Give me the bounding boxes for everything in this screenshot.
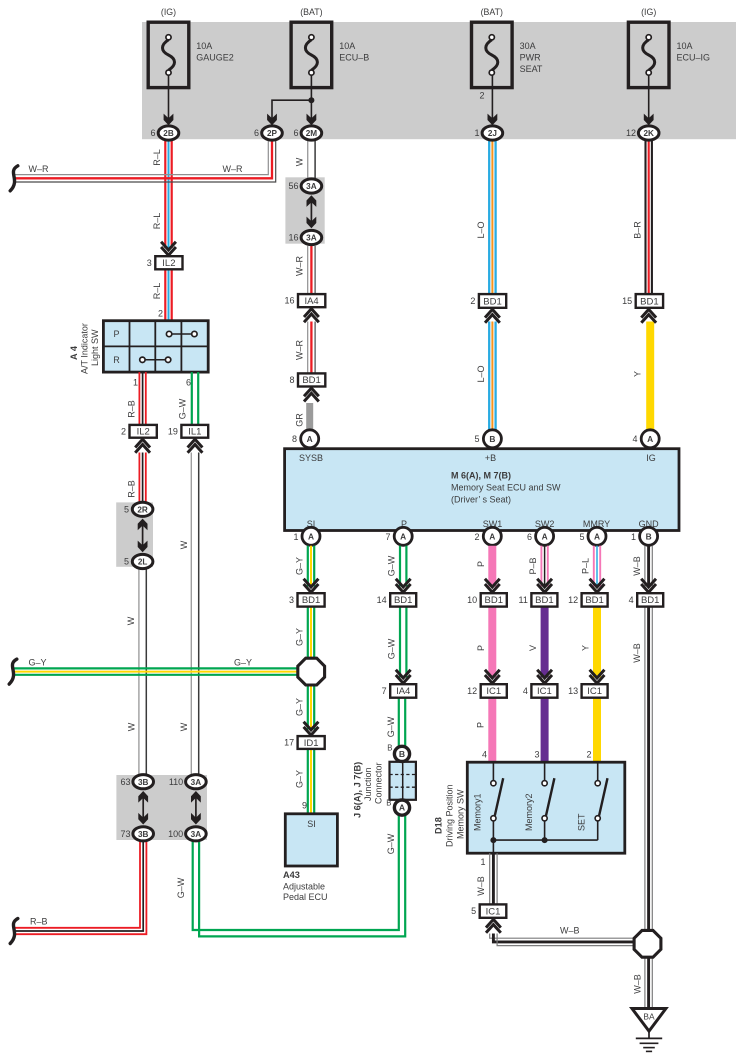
wire R-L 2B to IL2 bbox=[164, 140, 166, 248]
svg-text:GR: GR bbox=[295, 413, 305, 427]
svg-text:W: W bbox=[126, 616, 136, 625]
svg-text:SYSB: SYSB bbox=[299, 453, 323, 463]
svg-text:IC1: IC1 bbox=[486, 686, 501, 697]
svg-text:1: 1 bbox=[631, 532, 636, 542]
svg-text:R–L: R–L bbox=[152, 213, 162, 230]
wire Y BD1 to IG bbox=[646, 322, 654, 431]
svg-text:G–Y: G–Y bbox=[295, 628, 305, 646]
pigtail break W-R bbox=[10, 166, 18, 191]
connector 56 3A bbox=[301, 179, 322, 193]
svg-text:G–Y: G–Y bbox=[29, 658, 47, 668]
svg-text:10A: 10A bbox=[196, 41, 212, 51]
connector 10 BD1 bbox=[481, 593, 507, 606]
wire W-B BD1 to octagon bbox=[644, 607, 646, 930]
svg-text:2: 2 bbox=[470, 296, 475, 306]
svg-text:(IG): (IG) bbox=[161, 7, 176, 17]
svg-text:G–W: G–W bbox=[178, 398, 188, 419]
svg-text:2R: 2R bbox=[137, 505, 148, 514]
svg-text:SEAT: SEAT bbox=[520, 64, 543, 74]
wire W-R 3A to IA4 bbox=[307, 246, 309, 294]
chevron into BD1 bbox=[396, 579, 411, 587]
chevron out of BD1 bbox=[485, 309, 500, 317]
connector 2 BD1 bbox=[479, 294, 506, 308]
svg-text:ID1: ID1 bbox=[304, 738, 319, 749]
svg-text:ECU–B: ECU–B bbox=[339, 53, 369, 63]
memory seat ECU M6/M7 box bbox=[285, 449, 679, 531]
svg-text:G–W: G–W bbox=[387, 555, 397, 576]
wire Y IC1 to D18 bbox=[593, 698, 601, 763]
svg-text:30A: 30A bbox=[520, 41, 536, 51]
svg-text:A43: A43 bbox=[283, 870, 300, 880]
svg-text:3A: 3A bbox=[306, 182, 317, 191]
svg-text:Memory2: Memory2 bbox=[524, 793, 534, 831]
svg-text:A: A bbox=[594, 532, 600, 542]
svg-text:10: 10 bbox=[467, 595, 477, 605]
connector 16 3A bbox=[301, 230, 322, 244]
svg-text:W: W bbox=[127, 722, 137, 731]
ground triangle BA bbox=[632, 1009, 666, 1032]
svg-text:1: 1 bbox=[293, 532, 298, 542]
wire W-B D18 to IC1 bbox=[489, 853, 491, 904]
wire G-W 3A to junction connector bbox=[193, 815, 399, 930]
adjustable pedal ECU A43 box bbox=[285, 814, 337, 866]
svg-text:2L: 2L bbox=[138, 558, 148, 567]
node octagon G-Y bbox=[298, 658, 325, 685]
svg-text:BD1: BD1 bbox=[585, 595, 603, 606]
svg-text:6: 6 bbox=[186, 378, 191, 388]
svg-text:D18: D18 bbox=[434, 817, 444, 834]
svg-text:3B: 3B bbox=[138, 778, 149, 787]
svg-text:G–W: G–W bbox=[176, 877, 186, 898]
switch common rail bbox=[493, 839, 597, 841]
pin 7 A P bbox=[394, 527, 412, 545]
svg-text:R: R bbox=[113, 355, 120, 365]
svg-text:15: 15 bbox=[622, 296, 632, 306]
svg-text:IL1: IL1 bbox=[188, 427, 201, 438]
svg-text:G–Y: G–Y bbox=[295, 557, 305, 575]
switch SET bbox=[597, 762, 599, 780]
svg-text:R–B: R–B bbox=[127, 480, 137, 498]
svg-text:IC1: IC1 bbox=[537, 686, 552, 697]
svg-text:G–W: G–W bbox=[386, 833, 396, 854]
wire B-R 2K to BD1 bbox=[644, 140, 646, 294]
svg-text:W: W bbox=[295, 157, 305, 166]
svg-text:63: 63 bbox=[120, 777, 130, 787]
shield connector block 3A bbox=[285, 177, 324, 243]
chevron into BD1 bbox=[485, 579, 500, 587]
arrow into 2B bbox=[164, 114, 174, 126]
svg-text:10A: 10A bbox=[339, 41, 355, 51]
svg-text:110: 110 bbox=[169, 777, 183, 787]
chevron out of BD1 bbox=[641, 309, 656, 317]
svg-text:4: 4 bbox=[482, 750, 487, 760]
wire G-Y octagon to ID1 bbox=[307, 685, 309, 730]
svg-text:1: 1 bbox=[474, 128, 479, 138]
svg-text:P–B: P–B bbox=[528, 557, 538, 574]
wire P IC1 to D18 bbox=[488, 698, 496, 763]
connector 4 IC1 bbox=[531, 684, 557, 698]
svg-text:Light SW: Light SW bbox=[90, 329, 100, 366]
chevron out of IL1 bbox=[188, 439, 203, 447]
svg-text:GAUGE2: GAUGE2 bbox=[196, 53, 234, 63]
svg-text:1: 1 bbox=[133, 378, 138, 388]
wire P-B SW2 to BD1 bbox=[540, 546, 542, 587]
svg-text:BA: BA bbox=[643, 1012, 655, 1022]
wire W-R 2P to pigtail bbox=[15, 140, 268, 174]
shield connector block 3B-3A bbox=[116, 775, 207, 840]
svg-text:W: W bbox=[179, 540, 189, 549]
wire fuse PWR SEAT to 2J bbox=[491, 75, 493, 120]
svg-text:G–W: G–W bbox=[386, 716, 396, 737]
svg-text:W: W bbox=[179, 722, 189, 731]
svg-text:3: 3 bbox=[147, 258, 152, 268]
svg-text:IC1: IC1 bbox=[486, 906, 501, 917]
svg-text:2: 2 bbox=[474, 532, 479, 542]
connector 16 IA4 bbox=[298, 294, 325, 307]
chevron into BD1 bbox=[590, 579, 605, 587]
svg-text:Driving Position: Driving Position bbox=[445, 784, 455, 847]
connector 1 2J bbox=[482, 126, 503, 140]
pin 8 A SYSB bbox=[301, 430, 319, 448]
wire R-B IL2 to 2R bbox=[138, 453, 140, 502]
wire W-B octagon to BA ground bbox=[644, 958, 646, 1008]
svg-text:56: 56 bbox=[288, 181, 298, 191]
connector 19 IL1 bbox=[181, 425, 208, 438]
svg-text:W–B: W–B bbox=[632, 556, 642, 576]
svg-text:Y: Y bbox=[581, 645, 591, 651]
svg-text:G–Y: G–Y bbox=[234, 658, 252, 668]
svg-text:B: B bbox=[399, 749, 405, 759]
connector 11 BD1 bbox=[531, 593, 557, 606]
fuse 10A ECU-B (BAT) bbox=[291, 22, 332, 87]
wire L-O 2J to BD1 bbox=[488, 140, 490, 294]
svg-text:5: 5 bbox=[124, 505, 129, 515]
svg-text:4: 4 bbox=[523, 686, 528, 696]
wire W-B GND to BD1 bbox=[644, 546, 646, 587]
junction dot bbox=[308, 97, 314, 103]
arrow into 2P bbox=[267, 114, 277, 126]
wire branch to 2P bbox=[272, 100, 311, 119]
svg-text:W–R: W–R bbox=[295, 340, 305, 361]
connector 5 2R bbox=[132, 502, 153, 516]
svg-text:Adjustable: Adjustable bbox=[283, 882, 325, 892]
svg-text:Junction: Junction bbox=[363, 767, 373, 801]
svg-text:(BAT): (BAT) bbox=[300, 7, 322, 17]
svg-text:11: 11 bbox=[519, 595, 528, 605]
svg-text:2: 2 bbox=[121, 426, 126, 436]
svg-text:A: A bbox=[307, 434, 313, 444]
svg-text:16: 16 bbox=[284, 296, 294, 306]
svg-text:W–R: W–R bbox=[223, 164, 244, 174]
ground bars bbox=[636, 1037, 662, 1039]
svg-text:6: 6 bbox=[254, 128, 259, 138]
svg-text:5: 5 bbox=[471, 906, 476, 916]
chevron into IA4 bbox=[396, 670, 411, 678]
svg-text:BD1: BD1 bbox=[483, 296, 501, 307]
connector 2 IL2 bbox=[130, 425, 157, 438]
svg-text:P: P bbox=[476, 645, 486, 651]
svg-text:Memory1: Memory1 bbox=[473, 793, 483, 831]
chevron into IC1 bbox=[537, 670, 552, 678]
svg-text:R–B: R–B bbox=[127, 400, 137, 418]
svg-text:3A: 3A bbox=[191, 778, 202, 787]
svg-text:L–O: L–O bbox=[476, 221, 486, 238]
svg-text:6: 6 bbox=[527, 532, 532, 542]
svg-text:Memory Seat ECU and SW: Memory Seat ECU and SW bbox=[451, 483, 561, 493]
svg-text:IC1: IC1 bbox=[587, 686, 602, 697]
ground stem bbox=[648, 1031, 650, 1038]
svg-text:13: 13 bbox=[568, 686, 578, 696]
connector 17 ID1 bbox=[298, 736, 325, 749]
svg-text:100: 100 bbox=[168, 829, 183, 839]
svg-text:Y: Y bbox=[633, 371, 643, 377]
connector 8 BD1 bbox=[298, 373, 325, 386]
svg-text:2: 2 bbox=[586, 750, 591, 760]
pin 1 B GND bbox=[640, 527, 658, 545]
wire fuse GAUGE2 to 2B bbox=[168, 75, 170, 120]
svg-text:A: A bbox=[647, 434, 653, 444]
chevron into BD1 bbox=[304, 579, 319, 587]
chevron out of IL2 bbox=[135, 439, 150, 447]
pigtail break G-Y bbox=[9, 659, 17, 684]
svg-text:SI: SI bbox=[307, 819, 316, 829]
pin B junction top bbox=[394, 746, 409, 761]
junction connector J6/J7 box bbox=[390, 762, 416, 800]
wire G-W IA4 to junction B bbox=[398, 698, 400, 746]
svg-text:B: B bbox=[489, 434, 495, 444]
svg-text:7: 7 bbox=[385, 532, 390, 542]
wire fuse ECU-B to junction bbox=[310, 75, 312, 120]
svg-text:B: B bbox=[387, 744, 392, 753]
svg-text:4: 4 bbox=[632, 434, 637, 444]
svg-text:(IG): (IG) bbox=[641, 7, 656, 17]
connector 12 2K bbox=[638, 126, 659, 140]
svg-text:5: 5 bbox=[124, 557, 129, 567]
svg-text:2M: 2M bbox=[306, 129, 318, 138]
A/T indicator switch A4 box bbox=[103, 321, 208, 372]
wire fuse ECU-IG to 2K bbox=[648, 75, 650, 120]
wire P SW1 to BD1 bbox=[488, 546, 496, 587]
connector 13 IC1 bbox=[582, 684, 608, 698]
wire L-O BD1 to +B bbox=[488, 322, 490, 431]
pin A junction bottom bbox=[394, 800, 409, 815]
pin 5 A MMRY bbox=[588, 527, 606, 545]
svg-text:BD1: BD1 bbox=[302, 595, 320, 606]
svg-text:R–L: R–L bbox=[152, 149, 162, 166]
svg-text:W–B: W–B bbox=[560, 926, 580, 936]
svg-text:L–O: L–O bbox=[476, 365, 486, 382]
svg-text:6: 6 bbox=[150, 128, 155, 138]
svg-text:Pedal ECU: Pedal ECU bbox=[283, 892, 328, 902]
switch Memory1 bbox=[492, 762, 494, 780]
svg-text:12: 12 bbox=[626, 128, 636, 138]
svg-text:G–W: G–W bbox=[387, 638, 397, 659]
svg-text:P–L: P–L bbox=[581, 558, 591, 574]
svg-text:B–R: B–R bbox=[633, 221, 643, 239]
pin 5 B +B bbox=[483, 430, 501, 448]
svg-text:BD1: BD1 bbox=[640, 296, 658, 307]
svg-text:G–Y: G–Y bbox=[295, 770, 305, 788]
switch R contacts bbox=[140, 357, 145, 362]
svg-text:16: 16 bbox=[288, 233, 298, 243]
svg-text:2: 2 bbox=[158, 309, 163, 319]
svg-text:5: 5 bbox=[474, 434, 479, 444]
svg-text:73: 73 bbox=[120, 829, 130, 839]
svg-text:IL2: IL2 bbox=[162, 258, 175, 269]
wire R-B 3B to pigtail bbox=[15, 841, 140, 928]
chevron into IL2 bbox=[161, 242, 176, 250]
wire G-Y SI to BD1 bbox=[307, 546, 309, 587]
wire P-L MMRY to BD1 bbox=[593, 546, 595, 587]
chevron into ID1 bbox=[304, 722, 319, 730]
switch Memory2 bbox=[544, 762, 546, 780]
svg-text:3: 3 bbox=[534, 750, 539, 760]
wire R-B A4 to IL2 bbox=[138, 372, 140, 425]
svg-text:PWR: PWR bbox=[520, 53, 541, 63]
wire G-Y ID1 to A43 bbox=[307, 749, 309, 814]
svg-text:B: B bbox=[646, 532, 652, 542]
svg-text:2K: 2K bbox=[643, 129, 654, 138]
wire G-Y horizontal to octagon node bbox=[14, 667, 297, 669]
wire V IC1 to D18 bbox=[541, 698, 549, 763]
svg-text:A: A bbox=[308, 532, 314, 542]
svg-text:IA4: IA4 bbox=[396, 686, 410, 697]
wire W 2M to 3A bbox=[307, 140, 309, 178]
svg-text:BD1: BD1 bbox=[485, 595, 503, 606]
wire W-B IC1 to octagon bbox=[490, 934, 633, 939]
svg-text:ECU–IG: ECU–IG bbox=[677, 53, 711, 63]
svg-text:A: A bbox=[489, 532, 495, 542]
svg-text:(Driver’ s Seat): (Driver’ s Seat) bbox=[451, 495, 511, 505]
svg-text:3A: 3A bbox=[306, 234, 317, 243]
arrow into 2K bbox=[644, 114, 654, 126]
svg-text:7: 7 bbox=[382, 686, 387, 696]
svg-text:2: 2 bbox=[479, 91, 484, 101]
svg-text:10A: 10A bbox=[677, 41, 693, 51]
svg-text:12: 12 bbox=[568, 595, 578, 605]
wire Y BD1 to IC1 bbox=[593, 607, 601, 678]
junction dot bbox=[542, 837, 548, 843]
wire G-Y BD1 to octagon bbox=[307, 607, 309, 658]
connector 110 3A bbox=[186, 775, 207, 789]
svg-text:12: 12 bbox=[467, 686, 477, 696]
svg-text:8: 8 bbox=[292, 434, 297, 444]
svg-text:IG: IG bbox=[646, 453, 656, 463]
svg-text:2P: 2P bbox=[267, 129, 278, 138]
svg-text:P: P bbox=[476, 561, 486, 567]
svg-text:A: A bbox=[399, 803, 405, 813]
svg-text:3A: 3A bbox=[191, 830, 202, 839]
connector 7 IA4 bbox=[390, 684, 416, 698]
pin 4 A IG bbox=[641, 430, 659, 448]
pin 6 A SW2 bbox=[536, 527, 554, 545]
wire P BD1 to IC1 bbox=[488, 607, 496, 678]
pigtail break R-B bbox=[10, 919, 18, 944]
svg-text:BD1: BD1 bbox=[641, 595, 659, 606]
connector 3 IL2 bbox=[155, 256, 182, 269]
fuse 30A PWR SEAT (BAT) bbox=[472, 22, 513, 87]
connector 4 BD1 bbox=[637, 593, 663, 606]
connector 5 IC1 bbox=[480, 904, 507, 917]
svg-text:BD1: BD1 bbox=[302, 375, 320, 386]
svg-text:1: 1 bbox=[480, 857, 485, 867]
pin 1 A SI bbox=[302, 527, 320, 545]
connector 12 BD1 bbox=[582, 593, 608, 606]
wire V BD1 to IC1 bbox=[541, 607, 549, 678]
power source junction block band bbox=[142, 22, 736, 139]
chevron into BD1 bbox=[537, 579, 552, 587]
svg-text:6: 6 bbox=[293, 128, 298, 138]
connector 14 BD1 bbox=[390, 593, 416, 606]
svg-text:A: A bbox=[542, 532, 548, 542]
svg-text:A/T Indicator: A/T Indicator bbox=[80, 323, 90, 374]
svg-text:19: 19 bbox=[168, 426, 178, 436]
wire G-W BD1 to IA4 bbox=[399, 607, 401, 678]
fuse 10A ECU-IG (IG) bbox=[628, 22, 669, 87]
wire G-W A4 to IL1 bbox=[191, 372, 193, 425]
connector 6 2P bbox=[262, 126, 283, 140]
arrows between 3A connectors bbox=[310, 201, 312, 222]
svg-text:IA4: IA4 bbox=[304, 296, 318, 307]
junction dot bbox=[490, 837, 496, 843]
svg-text:4: 4 bbox=[629, 595, 634, 605]
wire W 2L to 3B bbox=[138, 569, 140, 775]
chevron out of IC1 bbox=[486, 919, 501, 927]
switch P contacts bbox=[166, 331, 171, 336]
svg-text:17: 17 bbox=[284, 738, 294, 748]
svg-text:A 4: A 4 bbox=[69, 345, 79, 360]
shield connector block 2R-2L bbox=[116, 502, 153, 566]
pin 2 A SW1 bbox=[483, 527, 501, 545]
svg-text:2J: 2J bbox=[488, 129, 497, 138]
svg-text:BD1: BD1 bbox=[535, 595, 553, 606]
svg-text:M 6(A), M 7(B): M 6(A), M 7(B) bbox=[451, 471, 511, 481]
svg-text:P: P bbox=[476, 722, 486, 728]
svg-text:9: 9 bbox=[302, 801, 307, 811]
svg-text:3B: 3B bbox=[138, 830, 149, 839]
arrows between 2R-2L bbox=[142, 525, 144, 547]
svg-text:G–Y: G–Y bbox=[295, 698, 305, 716]
connector 73 3B bbox=[133, 827, 154, 841]
chevron into IC1 bbox=[590, 670, 605, 678]
arrow into 2J bbox=[488, 114, 498, 126]
svg-text:SET: SET bbox=[577, 813, 587, 831]
svg-text:A: A bbox=[400, 532, 406, 542]
svg-text:8: 8 bbox=[289, 375, 294, 385]
svg-text:B: B bbox=[386, 799, 391, 808]
svg-text:14: 14 bbox=[377, 595, 387, 605]
node octagon W-B bbox=[634, 930, 661, 957]
wire R-L IL2 to A4 pin2 bbox=[164, 269, 166, 320]
svg-text:P: P bbox=[113, 329, 119, 339]
connector 63 3B bbox=[133, 775, 154, 789]
arrow into 2M bbox=[307, 114, 317, 126]
fuse 10A GAUGE2 (IG) bbox=[148, 22, 189, 87]
arrows between 3A connectors bbox=[195, 797, 197, 819]
svg-text:5: 5 bbox=[579, 532, 584, 542]
svg-text:J 6(A), J 7(B): J 6(A), J 7(B) bbox=[353, 762, 363, 818]
svg-text:W–B: W–B bbox=[633, 974, 643, 994]
connector 3 BD1 bbox=[298, 593, 325, 606]
connector 5 2L bbox=[132, 554, 153, 568]
wire G-W P to BD1 bbox=[399, 546, 401, 587]
svg-text:+B: +B bbox=[485, 453, 496, 463]
chevron out of BD1 bbox=[304, 388, 319, 396]
svg-text:W–R: W–R bbox=[295, 256, 305, 277]
svg-text:BD1: BD1 bbox=[394, 595, 412, 606]
connector 6 2M bbox=[301, 126, 322, 140]
svg-text:3: 3 bbox=[289, 595, 294, 605]
